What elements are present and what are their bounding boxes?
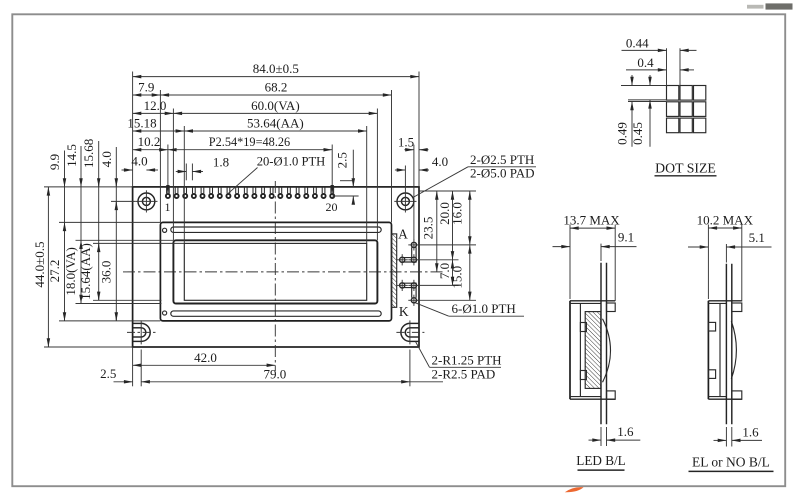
svg-text:2.5: 2.5 — [100, 366, 116, 381]
bottom half-hole right 2-R2.5 — [401, 323, 410, 341]
dim 16.0 — [469, 191, 471, 245]
dim 23.5 — [436, 191, 438, 272]
PCB outline 84.0x44.0 — [133, 187, 419, 347]
svg-text:A: A — [398, 226, 408, 241]
dim 2.5 bottom — [114, 381, 133, 383]
svg-text:EL or NO B/L: EL or NO B/L — [692, 454, 770, 469]
svg-text:10.2: 10.2 — [138, 134, 161, 149]
dot grid 3x3 — [667, 86, 679, 101]
svg-text:2.5: 2.5 — [335, 152, 350, 168]
LED side pin stub bottom — [607, 391, 616, 399]
svg-text:84.0±0.5: 84.0±0.5 — [253, 61, 299, 76]
svg-text:2-R1.25 PTH: 2-R1.25 PTH — [432, 352, 502, 367]
backlight pad K left — [400, 283, 405, 288]
header small marks top right — [747, 5, 764, 9]
dim 84.0 overall width — [133, 76, 419, 78]
dim 0.49 — [631, 75, 633, 86]
EL lens arc — [731, 321, 736, 379]
svg-text:2-R2.5 PAD: 2-R2.5 PAD — [432, 366, 496, 381]
dim 4.0 left hole — [122, 169, 133, 171]
EL side pin stub bottom — [732, 391, 742, 399]
20-pin header row — [166, 187, 168, 194]
backlight K trace — [402, 288, 412, 298]
dim 15.0 — [469, 245, 471, 300]
orange logo swoosh bottom — [565, 487, 584, 492]
svg-text:4.0: 4.0 — [432, 154, 448, 169]
svg-text:P2.54*19=48.26: P2.54*19=48.26 — [209, 135, 290, 149]
panel bottom slot — [171, 311, 381, 316]
backlight pad K elbow — [411, 283, 416, 288]
svg-text:0.45: 0.45 — [630, 122, 645, 145]
svg-text:79.0: 79.0 — [264, 366, 287, 381]
dim 10.2 — [133, 149, 168, 151]
dim 1.8 pin ticks — [185, 164, 187, 181]
dim 1.5 right — [404, 149, 414, 151]
dim 79.0 — [141, 381, 410, 383]
svg-text:12.0: 12.0 — [144, 98, 167, 113]
svg-text:1.8: 1.8 — [213, 155, 229, 170]
dot size left extension lines — [621, 85, 667, 87]
EL side view bezel — [707, 301, 709, 399]
svg-text:18.0(VA): 18.0(VA) — [63, 247, 78, 296]
svg-text:44.0±0.5: 44.0±0.5 — [32, 241, 47, 287]
EL side view bezel tab top — [708, 322, 715, 331]
dim 0.4 — [626, 69, 667, 71]
svg-text:15.64(AA): 15.64(AA) — [78, 243, 93, 300]
dim 0.44 — [622, 49, 667, 51]
svg-text:9.9: 9.9 — [47, 154, 62, 170]
backlight connector hatched strip — [392, 234, 397, 307]
vertical centerline — [274, 181, 276, 371]
svg-text:2-Ø5.0 PAD: 2-Ø5.0 PAD — [470, 165, 535, 180]
dim chain 15.68 and 15.64(AA) — [98, 141, 100, 300]
pin1 extension with arrow — [167, 145, 169, 194]
dim 15.18 — [133, 130, 185, 132]
svg-text:9.1: 9.1 — [618, 230, 634, 245]
dim 7.9 — [133, 94, 161, 96]
panel screw hole top-left — [163, 228, 167, 232]
svg-text:20: 20 — [326, 200, 338, 214]
pin20 extension with arrow — [331, 145, 333, 194]
svg-text:LED B/L: LED B/L — [576, 453, 625, 468]
svg-text:42.0: 42.0 — [194, 350, 217, 365]
horizontal centerline — [123, 271, 443, 273]
LED backlight hatched block — [585, 312, 601, 389]
svg-text:16.0: 16.0 — [450, 202, 465, 225]
panel screw hole bottom-left — [163, 311, 167, 315]
label 6-dia1.0 PTH with leader — [415, 303, 448, 316]
backlight pad K bottom — [411, 298, 416, 303]
svg-text:0.44: 0.44 — [626, 35, 649, 50]
dim 7.0 — [452, 260, 454, 286]
panel top slot — [171, 227, 381, 232]
mounting hole left 2-Ø2.5 PTH — [138, 193, 155, 210]
LED lens arc — [603, 319, 611, 383]
LED side view bezel tab bottom — [580, 371, 586, 380]
backlight pad A elbow — [411, 257, 416, 262]
svg-text:0.4: 0.4 — [637, 55, 654, 70]
dim 1.6 EL pcb thickness — [725, 427, 727, 447]
svg-text:K: K — [399, 304, 409, 319]
dim 10.2 MAX — [707, 225, 709, 300]
dim chain 9.9 and 27.2 — [64, 151, 66, 321]
extension lines left — [44, 186, 133, 188]
dim 5.1 — [725, 244, 727, 263]
viewing area 60.0x18.0 VA — [173, 240, 377, 303]
extension lines bottom — [132, 347, 134, 386]
dim 60.0 VA — [173, 112, 377, 114]
dim P2.54x19=48.26 pin pitch — [168, 149, 332, 151]
svg-text:27.2: 27.2 — [47, 260, 62, 283]
svg-text:7.9: 7.9 — [138, 80, 154, 95]
svg-text:13.7 MAX: 13.7 MAX — [563, 213, 620, 228]
dim 44.0 overall height — [47, 187, 49, 347]
svg-text:60.0(VA): 60.0(VA) — [251, 98, 300, 113]
extension lines top — [132, 72, 134, 187]
svg-text:0.49: 0.49 — [615, 122, 630, 145]
svg-text:10.2 MAX: 10.2 MAX — [697, 213, 754, 228]
svg-text:5.1: 5.1 — [749, 230, 765, 245]
svg-text:1.6: 1.6 — [742, 424, 759, 439]
LED side PCB — [600, 263, 602, 425]
svg-text:14.5: 14.5 — [64, 144, 79, 167]
svg-text:53.64(AA): 53.64(AA) — [247, 116, 304, 131]
svg-text:DOT SIZE: DOT SIZE — [655, 161, 716, 176]
svg-text:36.0: 36.0 — [98, 261, 113, 284]
backlight A trace — [402, 247, 412, 257]
dim 13.7 MAX — [569, 225, 571, 300]
LCD panel metal frame 68.2x27.2 — [160, 222, 391, 321]
svg-text:1.5: 1.5 — [398, 135, 414, 150]
EL side view bezel tab bottom — [708, 370, 715, 379]
svg-text:4.0: 4.0 — [99, 151, 114, 167]
svg-text:6-Ø1.0 PTH: 6-Ø1.0 PTH — [452, 301, 516, 316]
LED side view bezel — [569, 301, 571, 399]
dim 12.0 — [133, 112, 174, 114]
dim 42.0 — [133, 364, 276, 366]
backlight pad A left — [400, 257, 405, 262]
LED side pin stub top — [607, 303, 616, 312]
dim 4.0 right hole — [395, 169, 406, 171]
backlight pad A top — [411, 242, 416, 247]
dim 9.1 — [600, 244, 602, 261]
dim 2.5 vertical pin offset — [332, 195, 358, 197]
label 2-R1.25 PTH 2-R2.5 PAD with leader — [416, 342, 430, 368]
dim chain 4.0 and 36.0 — [115, 147, 117, 321]
active area 53.64x15.64 AA — [184, 243, 366, 300]
svg-text:15.0: 15.0 — [450, 266, 465, 289]
dim 0.45 — [649, 75, 651, 86]
LED side view bezel tab top — [580, 323, 586, 332]
dot size ticks — [666, 48, 668, 85]
svg-text:1: 1 — [165, 200, 171, 214]
dim 68.2 — [160, 94, 391, 96]
dim 20.0 — [452, 191, 454, 260]
svg-text:15.18: 15.18 — [127, 116, 156, 131]
dim chain 14.5 and 18.0(VA) — [80, 146, 82, 304]
mounting hole right 2-Ø2.5 PTH — [397, 193, 414, 210]
svg-text:15.68: 15.68 — [81, 139, 96, 168]
svg-text:20-Ø1.0 PTH: 20-Ø1.0 PTH — [257, 154, 326, 168]
dim 1.6 LED pcb thickness — [600, 427, 602, 446]
bottom half-hole left 2-R2.5 — [141, 323, 150, 341]
svg-text:1.6: 1.6 — [617, 424, 634, 439]
dim 53.64 AA — [184, 130, 366, 132]
svg-text:23.5: 23.5 — [421, 217, 436, 240]
EL side PCB — [725, 264, 727, 424]
svg-text:68.2: 68.2 — [265, 80, 288, 95]
extension lines right — [420, 190, 477, 192]
svg-text:4.0: 4.0 — [131, 154, 147, 169]
EL side pin stub top — [732, 303, 742, 312]
